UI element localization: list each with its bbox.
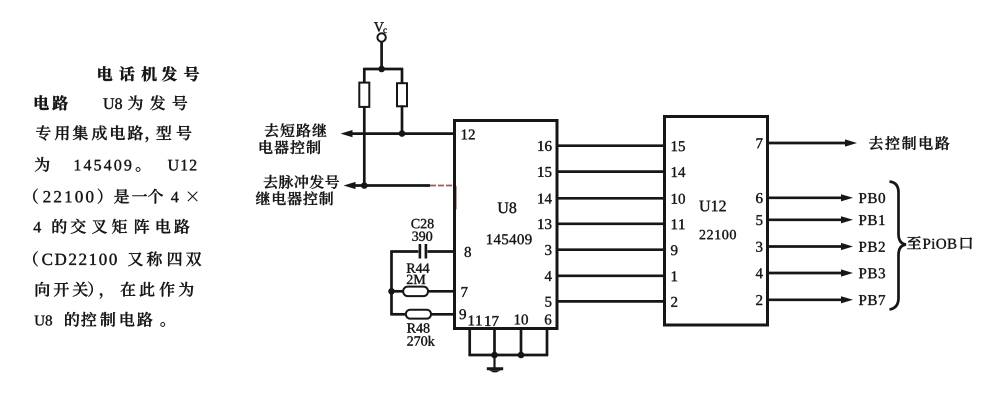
wire U8 pin 4 to U12 pin 1 xyxy=(556,274,666,277)
arrow to 去控制电路 xyxy=(845,139,857,146)
wire faded segment (red scan artifact) to U8 left edge xyxy=(430,185,456,187)
U12 right pin numbers 7 6 5 3 4 2 xyxy=(756,138,763,305)
wire U12 pin 6 to PB0 xyxy=(767,196,842,199)
wire bottom ground bus xyxy=(469,354,548,357)
op-amp/IC U8 145409 box xyxy=(455,121,558,329)
wire U12 pin 5 to PB1 xyxy=(767,218,842,221)
wire U8 pin 5 to U12 pin 2 xyxy=(556,300,666,303)
label 去短路继电器控制 xyxy=(260,123,327,154)
arrow to pulse-dial relay control (points left) xyxy=(344,182,356,189)
label PB2 xyxy=(859,242,885,252)
arrow PB0 xyxy=(841,194,853,201)
junction dot right pull-up on short-relay line xyxy=(399,130,406,137)
label 至PIOB口 xyxy=(907,236,972,249)
label PB0 xyxy=(859,193,885,203)
caption paragraph: circuit description text (Chinese) xyxy=(33,66,201,326)
junction dot bus at pin 10 xyxy=(518,352,525,359)
wire left rail of RC branch xyxy=(390,251,393,316)
U8 pin 12 number xyxy=(462,130,475,140)
wire U8 pin 14 to U12 pin 10 xyxy=(556,197,666,200)
arrow to short-circuit relay control (points left) xyxy=(341,130,353,137)
resistor left pull-up (no designator) xyxy=(359,83,369,107)
resistor right pull-up (no designator) xyxy=(397,83,407,106)
label PB1 xyxy=(859,215,885,225)
IC U12 22100 box xyxy=(665,117,768,326)
arrow PB1 xyxy=(841,216,853,223)
wire U12 pin 2 to PB7 xyxy=(767,298,842,301)
U8 pin 7 number xyxy=(462,287,468,297)
wire left pull-up top lead xyxy=(363,68,366,84)
wire U12 pin 7 to control circuit xyxy=(767,142,846,145)
wire right pull-up top lead xyxy=(401,68,404,84)
U8 pin 8 number xyxy=(465,247,471,257)
wire left pull-up bottom lead down to pulse-relay line xyxy=(363,107,366,186)
arrow PB2 xyxy=(841,243,853,250)
resistor R48 value 270k xyxy=(391,310,456,346)
wire U8 pin 16 to U12 pin 15 xyxy=(556,144,666,147)
wire U8 pin 11 stub down xyxy=(468,329,471,357)
junction dot bus at pin 17 xyxy=(491,352,498,359)
wire U12 pin 4 to PB3 xyxy=(767,272,842,275)
junction dot left pull-up on pulse-relay line xyxy=(361,182,368,189)
U8 pin 9 number xyxy=(460,309,466,319)
arrow PB3 xyxy=(841,269,853,276)
wire U8 pin 10 stub down xyxy=(520,329,523,357)
label PB3 xyxy=(859,268,885,278)
wire U12 pin 3 to PB2 xyxy=(767,245,842,248)
wire U8 pin 17 stub down xyxy=(493,329,496,357)
wire Vcc terminal to junction xyxy=(380,41,383,69)
label PB7 xyxy=(859,295,885,305)
wire U8 pin 15 to U12 pin 14 xyxy=(556,170,666,173)
wire right pull-up bottom lead down to short-relay line xyxy=(401,105,404,133)
junction dot at Vcc node xyxy=(378,66,385,73)
ground symbol xyxy=(487,355,503,372)
label 去脉冲发号继电器控制 xyxy=(256,175,339,206)
wire U8 pin 6 stub down xyxy=(546,329,549,357)
U12 left pin numbers 15 14 10 11 9 1 2 xyxy=(671,141,685,307)
U8 bottom pin numbers 11 17 10 6 xyxy=(469,314,552,326)
resistor R44 value 2M xyxy=(391,264,456,297)
wire U8 pin 13 to U12 pin 11 xyxy=(556,222,666,225)
wire U8 pin 3 to U12 pin 9 xyxy=(556,248,666,251)
junction dot rail at R44 xyxy=(388,288,395,295)
U8 right pin numbers 16 15 14 13 3 4 5 xyxy=(538,141,552,307)
wire short-circuit relay control line to U8 pin 12 xyxy=(349,132,456,135)
label 去控制电路 xyxy=(869,136,949,150)
wire pulse-dial relay control line xyxy=(352,184,430,187)
capacitor C28 value 390 xyxy=(391,219,456,259)
wire top bar between pull-up resistors xyxy=(363,68,403,71)
power terminal Vcc xyxy=(374,22,387,41)
arrow PB7 xyxy=(841,296,853,303)
brace for PIOB port group xyxy=(890,182,907,310)
